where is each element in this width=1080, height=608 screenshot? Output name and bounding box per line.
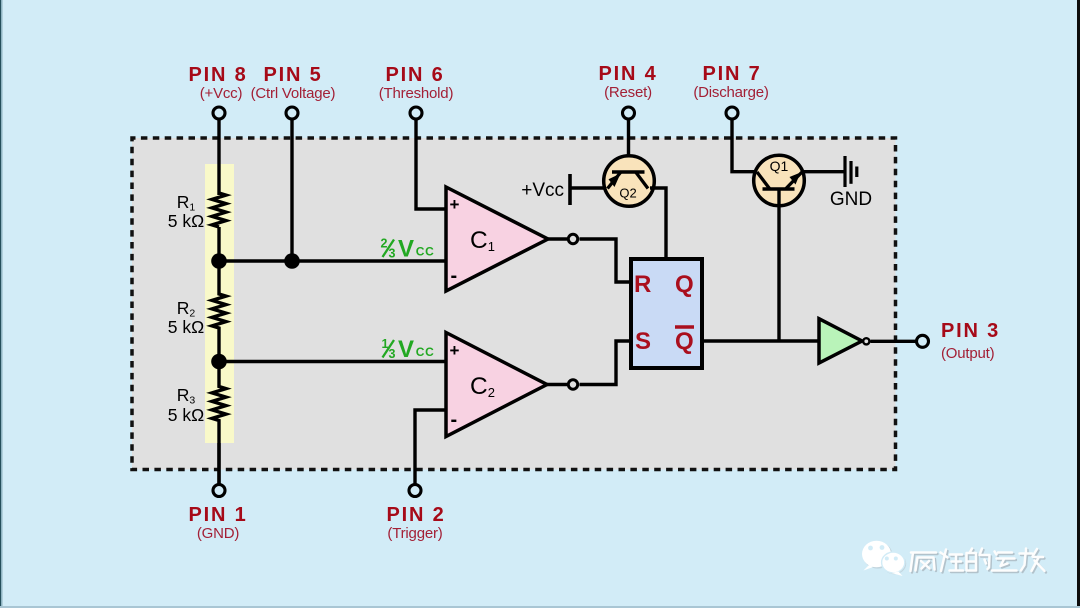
label R3 5kOhm — [168, 385, 204, 425]
svg-text:-: - — [451, 409, 458, 431]
svg-text:(Reset): (Reset) — [604, 84, 652, 101]
transistor Q1 — [754, 155, 805, 206]
svg-text:-: - — [451, 265, 458, 287]
label R1 5kOhm — [168, 192, 204, 231]
svg-text:PIN 1: PIN 1 — [188, 504, 247, 526]
svg-text:PIN 3: PIN 3 — [941, 320, 1000, 342]
C1 output stub — [548, 237, 567, 240]
+Vcc bar — [568, 174, 572, 205]
bottom edge strip — [0, 606, 1080, 608]
svg-text:5 kΩ: 5 kΩ — [168, 211, 204, 231]
svg-text:S: S — [635, 328, 651, 355]
label PIN 3 — [941, 320, 1000, 362]
wire PIN4 to Q2 collector — [627, 119, 630, 172]
svg-text:(Discharge): (Discharge) — [693, 84, 769, 101]
PIN4 terminal — [623, 107, 635, 119]
IC body dashed box — [132, 138, 896, 470]
PIN7 terminal — [726, 107, 738, 119]
resistor R3 — [212, 362, 226, 484]
wire PIN2 to C2 minus input — [415, 410, 446, 484]
wechat text 疯狂的运放 shadow — [912, 550, 1046, 573]
PIN6 terminal — [410, 107, 422, 119]
label PIN 2 — [386, 504, 445, 542]
inverter U2 — [819, 319, 869, 363]
svg-text:+Vcc: +Vcc — [521, 180, 564, 201]
svg-text:5 kΩ: 5 kΩ — [168, 405, 204, 425]
PIN8 terminal — [213, 107, 225, 119]
svg-text:V: V — [398, 336, 414, 363]
svg-text:(+Vcc): (+Vcc) — [200, 85, 243, 102]
svg-text:(Trigger): (Trigger) — [387, 525, 442, 542]
resistor R1 — [212, 193, 226, 227]
label R2 5kOhm — [168, 298, 204, 337]
wire Q2 to FF top — [650, 188, 666, 259]
wire R1 to node A — [217, 227, 220, 261]
svg-text:PIN 6: PIN 6 — [385, 64, 444, 86]
wechat logo — [862, 541, 906, 576]
wire PIN8 stem — [217, 119, 220, 195]
node A junction dot — [211, 253, 227, 269]
node C junction dot — [211, 354, 227, 370]
svg-text:PIN 5: PIN 5 — [263, 64, 322, 86]
C2 output stub — [547, 383, 567, 386]
svg-text:(Ctrl Voltage): (Ctrl Voltage) — [251, 85, 336, 102]
wire node A to C1 minus input — [219, 259, 446, 262]
svg-text:GND: GND — [830, 189, 872, 210]
wechat text 疯狂的运放 — [911, 549, 1045, 572]
svg-text:3: 3 — [389, 247, 396, 261]
svg-text:Q1: Q1 — [770, 158, 789, 174]
svg-text:(Output): (Output) — [941, 345, 995, 362]
wire Q1 collector to GND — [803, 170, 844, 173]
svg-text:(GND): (GND) — [197, 525, 240, 542]
label PIN 6 — [379, 64, 454, 102]
svg-text:Q: Q — [675, 328, 694, 355]
svg-text:Q: Q — [675, 271, 694, 298]
svg-text:R: R — [634, 271, 651, 298]
svg-text:3: 3 — [389, 347, 396, 361]
wire inverter to PIN3 — [871, 340, 917, 343]
wire C2 to FF S input — [580, 341, 632, 385]
wire PIN5 stem — [290, 119, 293, 261]
svg-text:CC: CC — [416, 345, 435, 359]
ground symbol — [845, 156, 857, 187]
voltage divider yellow highlight — [205, 164, 234, 443]
wire FF Qbar to inverter — [702, 339, 819, 342]
wire PIN7 to Q1 base — [732, 119, 756, 172]
PIN5 terminal — [286, 107, 298, 119]
label PIN 1 — [188, 504, 247, 542]
label PIN 8 — [188, 64, 247, 102]
wire PIN1 stem — [217, 443, 220, 484]
transistor Q2 — [604, 156, 655, 207]
resistor R2 — [212, 261, 226, 362]
wire C1 to FF R input — [580, 239, 632, 282]
wire Vcc bar to Q2 emitter — [570, 186, 606, 189]
svg-text:PIN 8: PIN 8 — [188, 64, 247, 86]
svg-text:(Threshold): (Threshold) — [379, 85, 454, 102]
comparator C2 — [446, 333, 547, 437]
PIN3 terminal — [917, 335, 929, 347]
label PIN 5 — [251, 64, 336, 102]
left dark edge — [0, 0, 1, 608]
node B junction dot (ctrl voltage) — [284, 253, 300, 269]
flip-flop U1 — [631, 259, 702, 368]
wire PIN6 to C1 plus input — [416, 119, 446, 209]
C1 output bubble — [568, 234, 577, 243]
PIN2 terminal — [409, 485, 421, 497]
comparator C1 — [446, 187, 548, 291]
svg-text:2: 2 — [381, 237, 388, 251]
label PIN 4 — [598, 63, 657, 101]
svg-text:CC: CC — [416, 245, 435, 259]
svg-text:PIN 7: PIN 7 — [702, 63, 761, 85]
svg-text:5 kΩ: 5 kΩ — [168, 317, 204, 337]
label 2/3 Vcc — [381, 236, 435, 263]
svg-text:V: V — [398, 236, 414, 263]
svg-text:+: + — [450, 341, 460, 360]
C2 output bubble — [568, 380, 577, 389]
svg-text:PIN 2: PIN 2 — [386, 504, 445, 526]
label PIN 7 — [693, 63, 769, 101]
right dark edge — [1077, 0, 1080, 608]
wire node C to C2 plus input — [219, 360, 446, 363]
svg-text:Q2: Q2 — [619, 186, 636, 201]
wire Q1 emitter down to output net — [777, 189, 780, 341]
PIN1 terminal — [213, 485, 225, 497]
svg-text:PIN 4: PIN 4 — [598, 63, 657, 85]
svg-text:+: + — [450, 195, 460, 214]
label 1/3 Vcc — [382, 336, 435, 363]
